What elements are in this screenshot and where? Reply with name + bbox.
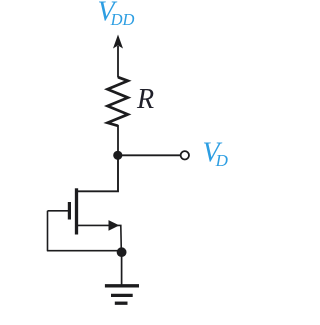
Q1 source lead with corner down to source node	[78, 225, 122, 250]
wire: gate feedback loop to source node	[48, 211, 119, 251]
wire: drain node to output terminal	[118, 154, 180, 156]
Q1 gate bar	[68, 202, 71, 220]
svg-text:VDD: VDD	[98, 0, 135, 29]
wire: drain node down to transistor drain	[78, 155, 119, 191]
Q1 gate lead	[48, 210, 69, 212]
wire: resistor bottom to drain node	[117, 125, 119, 155]
resistor R	[108, 77, 128, 126]
wire: source node to ground	[121, 252, 123, 285]
svg-text:VD: VD	[203, 138, 229, 171]
node: source junction	[117, 247, 127, 257]
Q1 source arrowhead	[109, 220, 120, 231]
Q1 channel bar	[75, 188, 78, 234]
terminal: open circle at V_D output	[181, 151, 189, 159]
node: drain junction	[113, 151, 122, 160]
ground symbol	[105, 286, 139, 303]
svg-text:R: R	[136, 84, 154, 115]
power supply arrow (to V_DD)	[113, 35, 123, 78]
transistor Q1 (diode-connected NMOS)	[48, 188, 122, 250]
